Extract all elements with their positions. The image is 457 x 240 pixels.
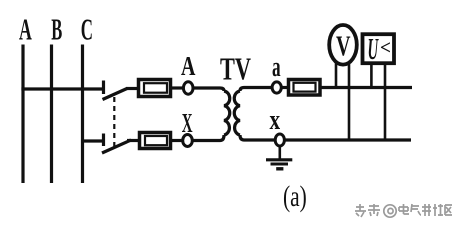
svg-text:C: C	[81, 12, 93, 47]
svg-text:X: X	[182, 108, 193, 138]
svg-text:x: x	[270, 104, 281, 136]
svg-text:U: U	[368, 31, 379, 66]
svg-text:(a): (a)	[283, 180, 307, 213]
svg-text:TV: TV	[220, 51, 251, 87]
svg-text:a: a	[272, 51, 281, 83]
svg-text:B: B	[51, 12, 62, 47]
svg-text:V: V	[336, 31, 351, 62]
svg-text:A: A	[19, 12, 32, 47]
svg-text:A: A	[181, 51, 196, 81]
svg-text:<: <	[380, 37, 391, 59]
